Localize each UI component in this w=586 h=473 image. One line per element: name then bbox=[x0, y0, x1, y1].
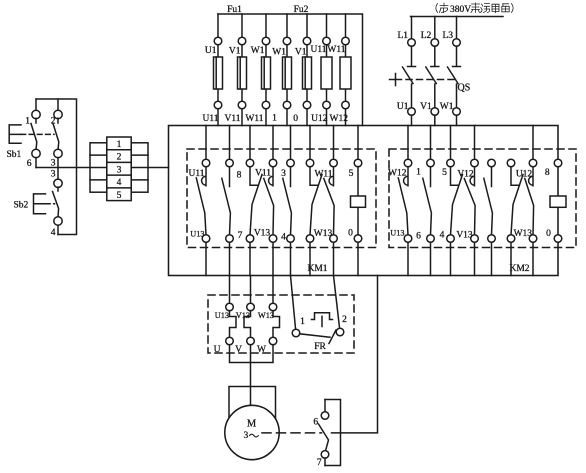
svg-text:V13: V13 bbox=[456, 230, 473, 240]
FR trip contact blade bbox=[300, 330, 336, 344]
Sb1 actuator linkage (dashed) bbox=[21, 133, 54, 135]
KM1 auxiliary contact (unlabelled) bbox=[283, 167, 292, 235]
terminal 4 (Sb2) bbox=[54, 217, 62, 225]
svg-text:2: 2 bbox=[117, 153, 122, 163]
fuse top terminals bbox=[214, 37, 349, 45]
wire: panel bottom to FR contact terminal 1 bbox=[291, 276, 296, 330]
wire: fuse column 4 bbox=[286, 14, 288, 126]
terminal W1 bbox=[453, 108, 461, 116]
wires: U1 V1 W1 down to panel box bbox=[412, 115, 457, 125]
svg-text:U1: U1 bbox=[397, 102, 409, 112]
svg-text:V11: V11 bbox=[224, 114, 240, 124]
fuse Fu1-b body bbox=[238, 57, 247, 89]
fuse Fu2-c body bbox=[321, 57, 332, 89]
terminal U13 (KM2) bbox=[404, 235, 412, 243]
pushbutton Sb2 blade bbox=[53, 187, 59, 217]
svg-text:1: 1 bbox=[25, 117, 30, 127]
svg-text:4: 4 bbox=[281, 233, 286, 243]
pushbutton Sb1 contact A blade bbox=[31, 118, 37, 149]
svg-text:U11: U11 bbox=[310, 45, 326, 55]
pushbutton Sb2 actuator head bbox=[34, 194, 46, 214]
svg-text:6: 6 bbox=[416, 231, 421, 241]
FR heater element W bbox=[273, 311, 280, 338]
terminal L2 bbox=[431, 39, 439, 47]
terminal strip right tabs bbox=[131, 143, 148, 192]
svg-text:W1: W1 bbox=[251, 46, 265, 56]
motor M body bbox=[225, 405, 279, 459]
terminal V13 (KM1) bbox=[246, 235, 254, 243]
terminal 4 (KM1) bbox=[269, 235, 277, 243]
KM1 main contact U11-U13 (with arc hook) bbox=[196, 167, 206, 235]
switch QS pole 3: fixed jaw and blade bbox=[448, 46, 461, 108]
switch QS pole 1: fixed jaw and blade bbox=[403, 46, 416, 108]
svg-text:8: 8 bbox=[545, 168, 550, 178]
wires: panel top edge down to KM1 contact tops bbox=[206, 126, 358, 160]
wires: panel top edge down to KM2 contact tops bbox=[408, 126, 533, 160]
svg-text:0: 0 bbox=[293, 114, 298, 124]
terminal L3 bbox=[453, 39, 461, 47]
wires: KM2 contact bottoms down to panel bottom edge bbox=[408, 242, 533, 275]
svg-text:KM2: KM2 bbox=[509, 264, 529, 274]
pushbutton Sb1 actuator head bbox=[9, 125, 21, 143]
QS operating handle bbox=[390, 74, 396, 86]
terminal W11 (KM1) bbox=[306, 159, 314, 167]
switch QS pole 2: fixed jaw and blade bbox=[426, 46, 439, 108]
centrifugal switch blade bbox=[319, 424, 329, 451]
svg-text:U11: U11 bbox=[202, 114, 218, 124]
KM2 main contact pair U12: bridge blades bbox=[511, 167, 534, 235]
terminal strip left tabs bbox=[90, 143, 107, 192]
terminal V13 (KM2) bbox=[471, 235, 479, 243]
svg-text:V12: V12 bbox=[457, 170, 474, 180]
terminal W13 (FR) bbox=[269, 303, 277, 311]
wire: L3 drop bbox=[456, 17, 458, 39]
wire: fuse column 7 bbox=[345, 14, 347, 126]
terminal 6 (Sb1) bbox=[32, 149, 40, 157]
fuse bottom terminals bbox=[214, 101, 349, 109]
terminal 1 (KM2) bbox=[427, 159, 435, 167]
terminal (KM2 aux top) bbox=[488, 159, 496, 167]
QS mechanical linkage (dashed) bbox=[396, 79, 455, 81]
coil KM2 bbox=[550, 196, 566, 207]
wire: terminal 6 to control line bbox=[35, 158, 37, 168]
svg-text:4: 4 bbox=[117, 178, 122, 188]
svg-text:W13: W13 bbox=[314, 229, 333, 239]
terminal U12 (KM2) bbox=[507, 159, 515, 167]
wire: incoming supply bus bbox=[411, 16, 504, 18]
svg-text:3: 3 bbox=[244, 431, 249, 441]
terminal 5 (KM1) bbox=[330, 159, 338, 167]
terminal 7 (KM1) bbox=[226, 235, 234, 243]
svg-text:V1: V1 bbox=[295, 48, 307, 58]
wire: L1 drop bbox=[411, 17, 413, 39]
wire: centrifugal switch to panel bottom edge bbox=[332, 276, 378, 433]
terminal 8 (KM1) bbox=[226, 159, 234, 167]
svg-text:W1: W1 bbox=[440, 102, 454, 112]
terminal V1 bbox=[431, 108, 439, 116]
terminal 3 (KM1) bbox=[269, 159, 277, 167]
svg-text:W12: W12 bbox=[388, 169, 407, 179]
svg-text:8: 8 bbox=[237, 171, 242, 181]
terminal 5 (KM2) bbox=[447, 159, 455, 167]
svg-text:W1: W1 bbox=[272, 48, 286, 58]
terminal W12 (KM2) bbox=[404, 159, 412, 167]
svg-text:7: 7 bbox=[317, 458, 322, 468]
wire: fuse feeder bus with right-side drop to panel bbox=[218, 14, 363, 126]
wire: terminal 7 to frame bottom bbox=[324, 458, 326, 466]
wire: panel bottom to FR contact terminal 2 bbox=[334, 276, 340, 329]
svg-text:7: 7 bbox=[238, 231, 243, 241]
terminal 3 (Sb2) bbox=[54, 179, 62, 187]
svg-text:W13: W13 bbox=[258, 311, 274, 320]
svg-text:V13: V13 bbox=[254, 229, 271, 239]
svg-text:W13: W13 bbox=[514, 229, 533, 239]
terminal U1 bbox=[408, 108, 416, 116]
coil KM1 bbox=[351, 196, 366, 207]
terminal (KM2 aux bottom) bbox=[488, 235, 496, 243]
terminal 3 (Sb1) bbox=[54, 149, 62, 157]
svg-text:5: 5 bbox=[442, 168, 447, 178]
svg-text:1: 1 bbox=[416, 168, 421, 178]
FR thermal trip symbol bbox=[312, 313, 333, 327]
centrifugal switch frame bbox=[325, 400, 341, 466]
svg-text:W: W bbox=[257, 345, 266, 355]
terminal 2 (FR contact) bbox=[336, 328, 344, 336]
svg-text:1: 1 bbox=[117, 140, 122, 150]
terminal strip center column with terminals 1-5 bbox=[107, 137, 131, 201]
terminal 1 (FR contact) bbox=[292, 329, 300, 337]
terminal 6 (centrifugal switch) bbox=[321, 412, 329, 420]
terminal 0 (KM2) bbox=[529, 235, 537, 243]
svg-text:V1: V1 bbox=[229, 47, 241, 57]
svg-text:L2: L2 bbox=[421, 31, 432, 41]
motor junction box bbox=[229, 387, 276, 420]
wire: frame top to terminal 6 bbox=[324, 400, 326, 412]
terminal 1 (Sb1) bbox=[32, 110, 40, 118]
KM2 auxiliary contact 1-6 bbox=[423, 167, 432, 235]
svg-text:3: 3 bbox=[51, 170, 56, 180]
svg-text:U12: U12 bbox=[516, 170, 533, 180]
wire: KM1 coil column bbox=[357, 167, 359, 235]
fuse Fu2-a body bbox=[283, 57, 292, 89]
wire: fuse column 6 bbox=[326, 14, 328, 126]
wire: column B from frame top bbox=[57, 99, 59, 111]
terminal 8 (KM2) bbox=[529, 159, 537, 167]
terminal 0 (KM1) bbox=[330, 235, 338, 243]
svg-text:U1: U1 bbox=[205, 46, 217, 56]
Sb2 actuator linkage (dashed) bbox=[46, 203, 55, 205]
wire: fuse column 2 bbox=[241, 14, 243, 126]
KM2 main contact pair V12: bridge blades bbox=[451, 167, 476, 235]
svg-text:Sb1: Sb1 bbox=[7, 150, 22, 160]
svg-text:U: U bbox=[214, 345, 221, 355]
svg-text:U13: U13 bbox=[390, 229, 404, 238]
wire: fuse column 5 bbox=[306, 14, 308, 126]
wires: KM1 contact bottoms down to panel bottom edge bbox=[206, 242, 358, 275]
thermal relay FR dashed outline bbox=[208, 295, 354, 353]
terminal U (FR) bbox=[226, 337, 234, 345]
svg-text:U13: U13 bbox=[190, 230, 204, 239]
terminal V12 (KM2) bbox=[471, 159, 479, 167]
wires: FR outputs U V W to motor junction bbox=[230, 345, 274, 406]
terminal 4 (KM2) bbox=[447, 235, 455, 243]
svg-text:M: M bbox=[247, 419, 257, 430]
contactor panel enclosure box bbox=[169, 126, 559, 276]
svg-text:U12: U12 bbox=[311, 114, 328, 124]
svg-text:1: 1 bbox=[300, 317, 305, 327]
wire: fuse column 1 bbox=[217, 14, 219, 126]
KM2 coil column terminals 8-0 bbox=[554, 159, 562, 167]
svg-text:L1: L1 bbox=[397, 31, 408, 41]
wire: terminal 3 down across control line bbox=[57, 158, 59, 180]
svg-text:FR: FR bbox=[314, 342, 326, 352]
svg-text:Sb2: Sb2 bbox=[14, 201, 29, 211]
svg-text:W12: W12 bbox=[330, 114, 349, 124]
svg-text:1: 1 bbox=[272, 114, 277, 124]
svg-text:3: 3 bbox=[281, 169, 286, 179]
KM1 main contact pair V11: bridge blades bbox=[250, 167, 274, 235]
svg-text:0: 0 bbox=[546, 229, 551, 239]
motor shaft linkage to centrifugal switch (dashed) bbox=[262, 432, 322, 434]
svg-text:V1: V1 bbox=[420, 102, 432, 112]
svg-text:4: 4 bbox=[51, 228, 56, 238]
terminal W13 (KM2) bbox=[507, 235, 515, 243]
svg-text:6: 6 bbox=[313, 418, 318, 428]
svg-text:380V: 380V bbox=[450, 5, 471, 15]
label: (接380V交流电源) power source note, CJK approximated bbox=[436, 3, 513, 13]
wire: control line from button station to panel bbox=[36, 167, 169, 169]
svg-text:V: V bbox=[235, 345, 242, 355]
wire: L2 drop bbox=[434, 17, 436, 39]
KM2 main contact W12-U13 (with arc hook) bbox=[398, 167, 408, 235]
terminal (KM1 aux top) bbox=[287, 159, 295, 167]
svg-text:3: 3 bbox=[117, 165, 122, 175]
KM1 auxiliary contact 8-7 bbox=[222, 167, 231, 235]
KM1 main contact pair W11: bridge blades bbox=[310, 167, 334, 235]
wire: column A from frame top bbox=[35, 99, 37, 111]
terminal V (FR) bbox=[247, 337, 255, 345]
KM2 auxiliary contact (unlabelled) bbox=[484, 167, 493, 235]
svg-text:0: 0 bbox=[348, 229, 353, 239]
fuse Fu2-b body bbox=[303, 57, 312, 89]
svg-text:6: 6 bbox=[27, 159, 32, 169]
pushbutton Sb1 contact B blade bbox=[53, 118, 59, 149]
terminal U13 (KM1) bbox=[202, 235, 210, 243]
svg-text:5: 5 bbox=[349, 169, 354, 179]
terminal 2 (Sb1) bbox=[54, 110, 62, 118]
terminal (KM1 aux bottom) bbox=[287, 235, 295, 243]
button station frame (top, right, bottom edges) bbox=[36, 99, 77, 235]
terminal W13 (KM1) bbox=[306, 235, 314, 243]
svg-text:V11: V11 bbox=[255, 169, 271, 179]
wire: fuse column 3 bbox=[265, 14, 267, 126]
terminal U11 (KM1) bbox=[202, 159, 210, 167]
terminal U13 (FR) bbox=[226, 303, 234, 311]
FR heater element U bbox=[230, 311, 237, 338]
fuse Fu2-d body bbox=[340, 57, 351, 89]
svg-text:L3: L3 bbox=[442, 31, 453, 41]
wires: panel bottom to FR heater inputs bbox=[230, 276, 274, 304]
terminal W (FR) bbox=[269, 337, 277, 345]
fuse Fu1-a body bbox=[214, 57, 223, 89]
svg-text:W11: W11 bbox=[245, 114, 263, 124]
svg-text:5: 5 bbox=[117, 191, 122, 201]
KM1 coil column terminals 5-0 bbox=[354, 159, 362, 167]
terminal V13 (FR) bbox=[247, 303, 255, 311]
FR heater element V bbox=[244, 311, 251, 338]
svg-text:W11: W11 bbox=[327, 45, 345, 55]
svg-text:4: 4 bbox=[440, 230, 445, 240]
wire: terminal 4 to frame bottom bbox=[57, 225, 59, 234]
fuse Fu1-c body bbox=[262, 57, 271, 89]
contactor KM1 dashed outline bbox=[187, 149, 376, 248]
contactor KM2 dashed outline bbox=[389, 149, 576, 248]
svg-text:U11: U11 bbox=[188, 169, 204, 179]
svg-text:W11: W11 bbox=[314, 170, 332, 180]
svg-text:2: 2 bbox=[342, 315, 347, 325]
terminal 7 (centrifugal switch) bbox=[321, 451, 329, 459]
terminal 6 (KM2) bbox=[427, 235, 435, 243]
svg-text:QS: QS bbox=[458, 83, 471, 94]
svg-text:U13: U13 bbox=[215, 311, 229, 320]
terminal L1 bbox=[408, 39, 416, 47]
svg-text:V13: V13 bbox=[236, 311, 250, 320]
terminal V11 (KM1) bbox=[246, 159, 254, 167]
